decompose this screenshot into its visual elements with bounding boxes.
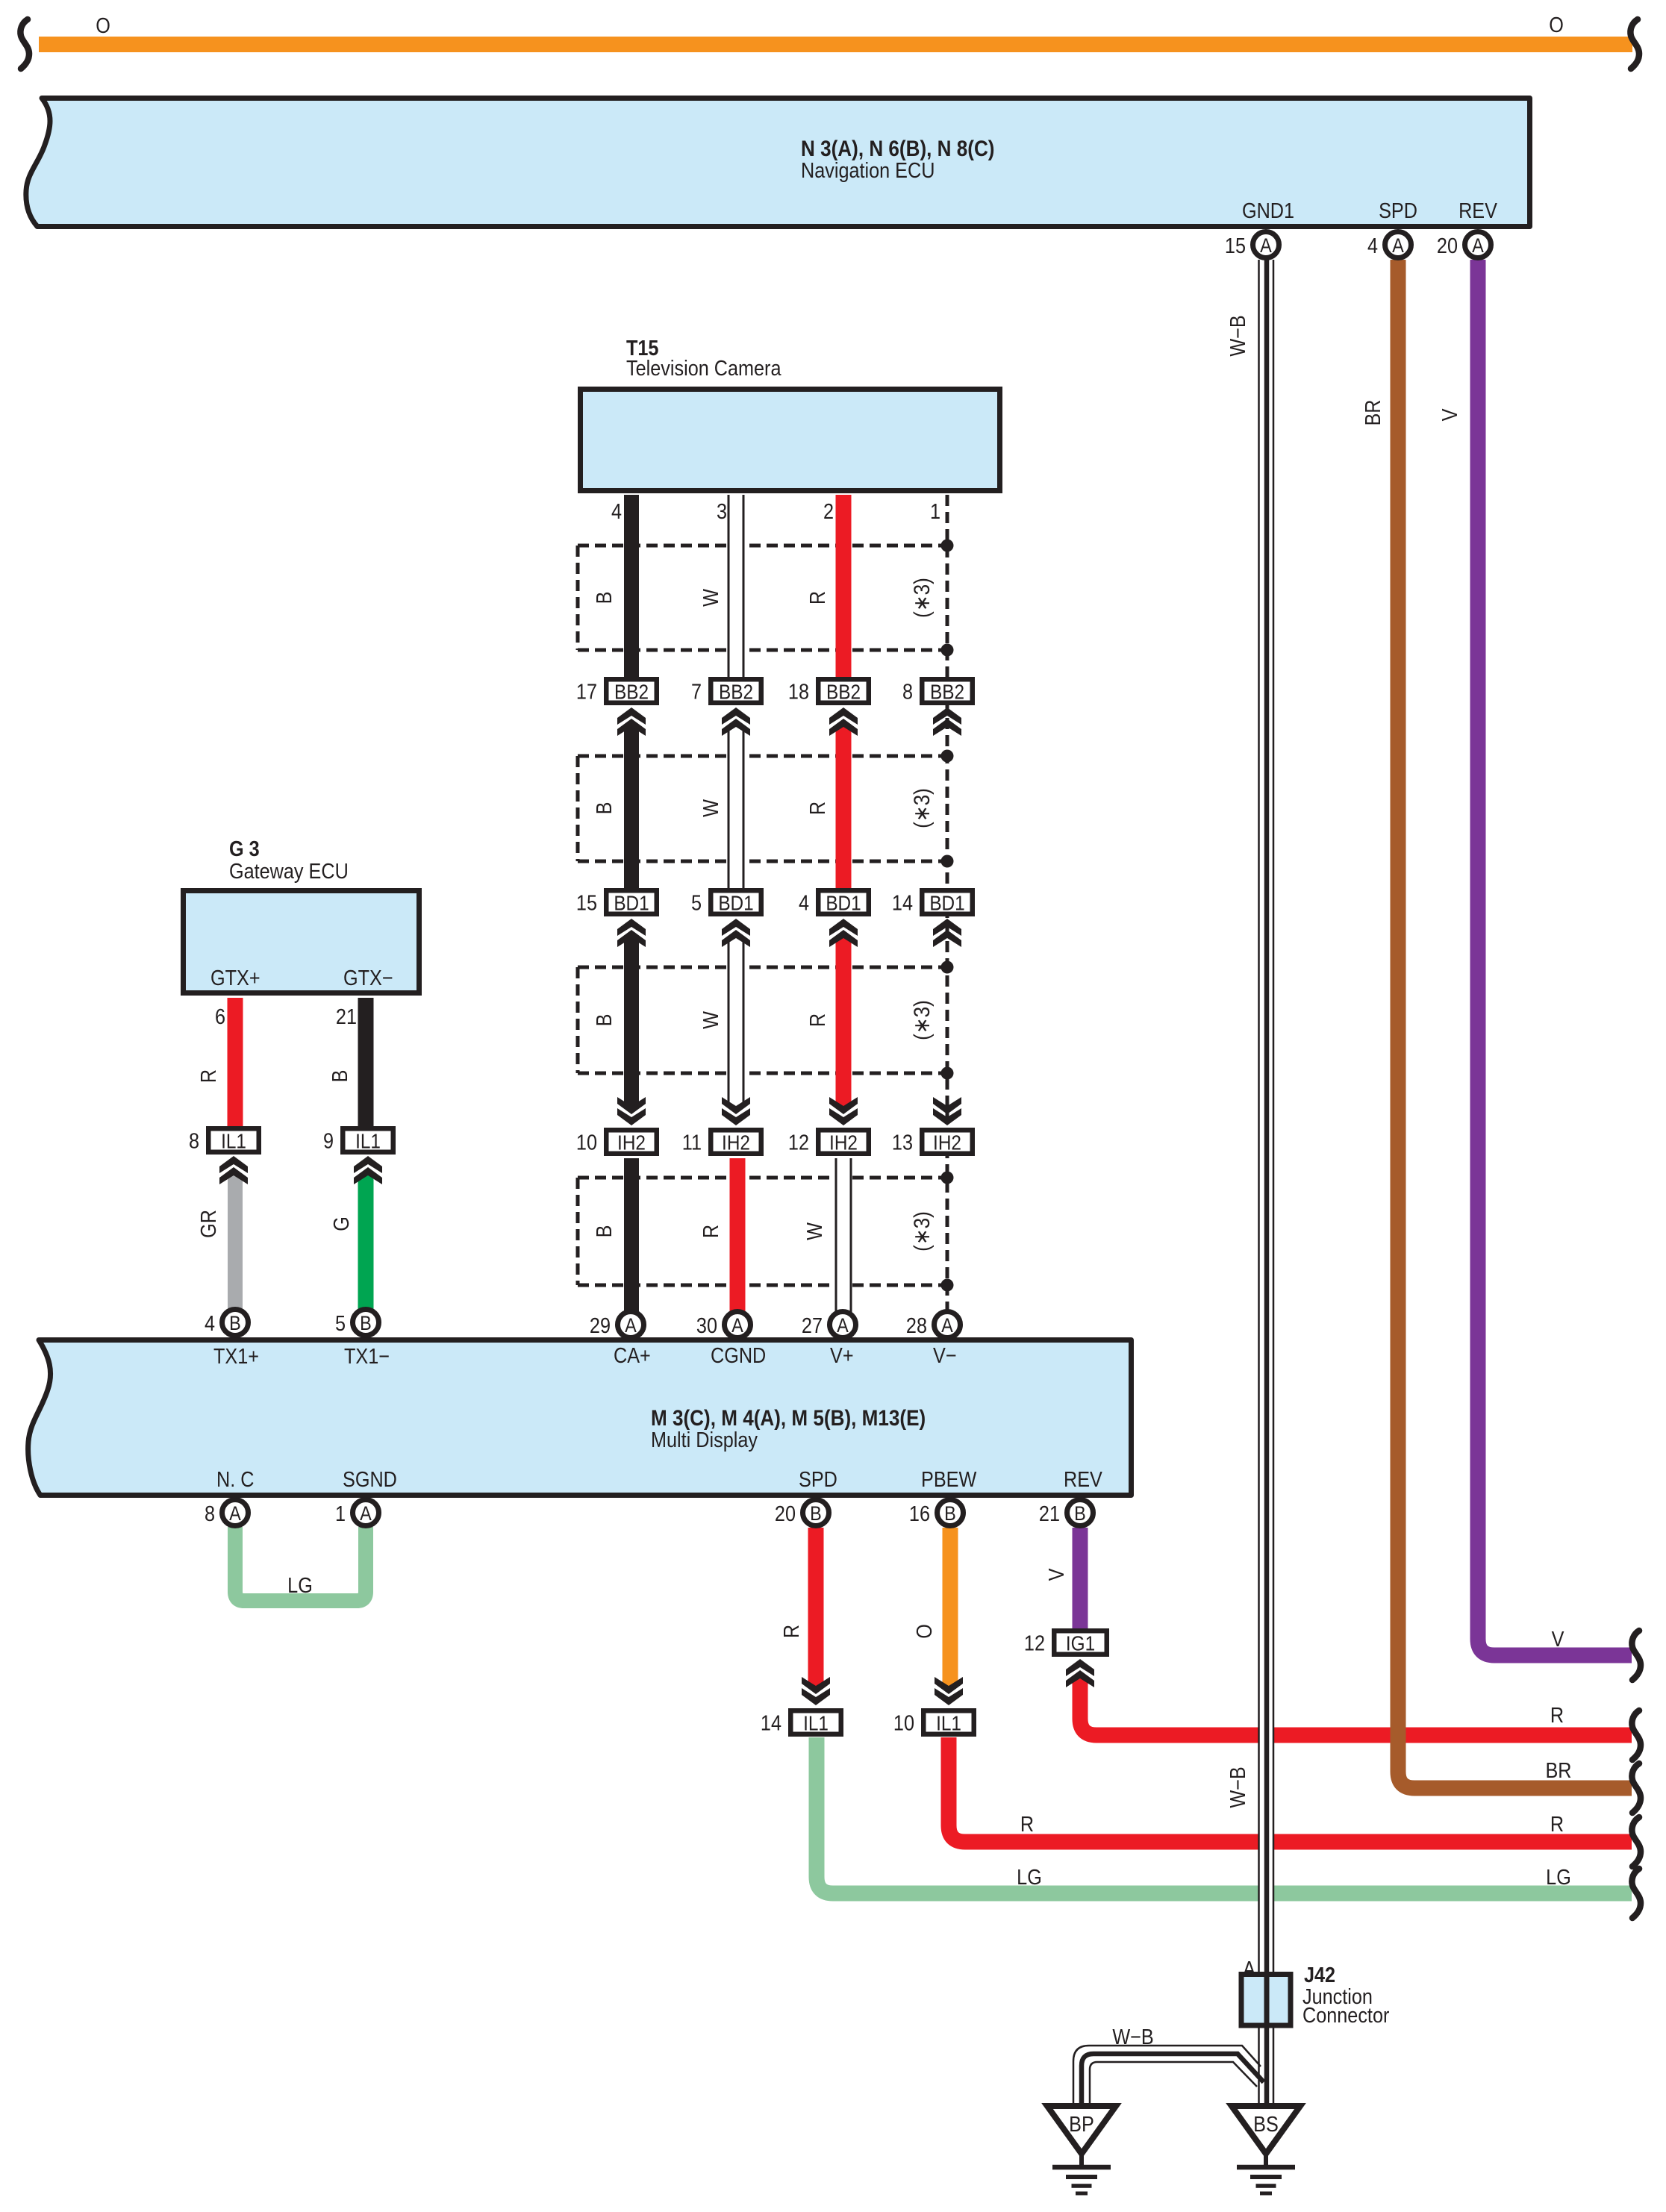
svg-text:N. C: N. C — [216, 1466, 254, 1491]
svg-text:V: V — [1043, 1569, 1068, 1581]
svg-text:V: V — [1437, 409, 1461, 422]
svg-text:17: 17 — [576, 679, 597, 704]
svg-text:R: R — [196, 1069, 220, 1083]
svg-text:A: A — [1472, 235, 1484, 257]
svg-text:W: W — [802, 1222, 826, 1240]
svg-text:8: 8 — [205, 1501, 215, 1525]
svg-text:B: B — [944, 1503, 956, 1525]
svg-text:BD1: BD1 — [718, 891, 753, 915]
svg-text:BB2: BB2 — [719, 680, 753, 704]
svg-text:14: 14 — [761, 1710, 781, 1735]
svg-text:(∗3): (∗3) — [909, 1211, 934, 1252]
svg-text:A: A — [941, 1315, 953, 1337]
svg-text:O: O — [96, 13, 110, 37]
svg-text:GTX+: GTX+ — [210, 965, 260, 990]
svg-text:A: A — [1243, 1956, 1256, 1981]
svg-text:W: W — [698, 1011, 723, 1029]
svg-text:BD1: BD1 — [929, 891, 964, 915]
svg-text:B: B — [360, 1313, 372, 1335]
svg-text:R: R — [1020, 1811, 1034, 1836]
svg-text:LG: LG — [1017, 1864, 1042, 1889]
svg-text:1: 1 — [930, 499, 940, 523]
svg-text:30: 30 — [696, 1313, 717, 1337]
svg-text:Television Camera: Television Camera — [626, 355, 781, 380]
svg-text:B: B — [1074, 1503, 1086, 1525]
svg-text:A: A — [1260, 235, 1272, 257]
svg-text:A: A — [360, 1503, 372, 1525]
svg-text:REV: REV — [1064, 1466, 1102, 1491]
svg-text:SPD: SPD — [1379, 198, 1417, 222]
svg-text:O: O — [911, 1624, 936, 1639]
svg-text:IH2: IH2 — [617, 1131, 646, 1155]
svg-text:R: R — [698, 1225, 723, 1238]
svg-text:15: 15 — [1225, 233, 1246, 257]
svg-text:V+: V+ — [830, 1343, 854, 1367]
svg-text:(∗3): (∗3) — [909, 578, 934, 618]
svg-text:V−: V− — [933, 1343, 957, 1367]
svg-text:R: R — [805, 1013, 829, 1027]
svg-text:Gateway ECU: Gateway ECU — [229, 858, 349, 883]
svg-text:IL1: IL1 — [936, 1711, 961, 1735]
svg-text:BB2: BB2 — [930, 680, 964, 704]
svg-text:R: R — [779, 1625, 803, 1638]
svg-text:BS: BS — [1253, 2111, 1279, 2136]
svg-text:BB2: BB2 — [826, 680, 861, 704]
svg-text:21: 21 — [336, 1004, 357, 1028]
svg-text:IH2: IH2 — [829, 1131, 858, 1155]
svg-text:IL1: IL1 — [803, 1711, 829, 1735]
svg-text:W: W — [698, 799, 723, 817]
svg-text:18: 18 — [788, 679, 809, 704]
svg-text:15: 15 — [576, 890, 597, 915]
svg-text:BB2: BB2 — [614, 680, 649, 704]
svg-text:A: A — [1392, 235, 1404, 257]
svg-text:12: 12 — [1024, 1631, 1045, 1655]
svg-text:G: G — [328, 1216, 353, 1231]
svg-text:Connector: Connector — [1302, 2002, 1389, 2027]
svg-text:8: 8 — [902, 679, 913, 704]
svg-text:O: O — [1549, 12, 1564, 37]
svg-text:W−B: W−B — [1112, 2024, 1153, 2049]
svg-text:29: 29 — [590, 1313, 611, 1337]
svg-text:20: 20 — [1437, 233, 1458, 257]
svg-text:R: R — [1550, 1811, 1564, 1836]
svg-text:6: 6 — [215, 1004, 225, 1028]
svg-text:IL1: IL1 — [355, 1129, 381, 1153]
svg-text:W: W — [698, 589, 723, 607]
svg-text:LG: LG — [287, 1572, 313, 1597]
svg-text:W−B: W−B — [1225, 1766, 1249, 1808]
svg-text:BD1: BD1 — [614, 891, 649, 915]
svg-text:3: 3 — [717, 499, 727, 523]
svg-text:10: 10 — [893, 1710, 914, 1735]
svg-text:28: 28 — [906, 1313, 927, 1337]
svg-text:BD1: BD1 — [826, 891, 861, 915]
svg-text:(∗3): (∗3) — [909, 788, 934, 828]
svg-text:4: 4 — [799, 890, 809, 915]
svg-text:12: 12 — [788, 1130, 809, 1155]
svg-text:A: A — [229, 1503, 241, 1525]
svg-text:B: B — [591, 1014, 616, 1027]
svg-text:7: 7 — [691, 679, 702, 704]
svg-text:BP: BP — [1069, 2111, 1094, 2136]
svg-text:V: V — [1552, 1626, 1564, 1651]
svg-text:R: R — [805, 802, 829, 815]
svg-text:21: 21 — [1039, 1501, 1060, 1525]
svg-text:B: B — [591, 802, 616, 815]
svg-text:LG: LG — [1546, 1864, 1571, 1889]
svg-text:CGND: CGND — [711, 1343, 766, 1367]
svg-text:A: A — [731, 1315, 743, 1337]
svg-text:4: 4 — [1367, 233, 1378, 257]
svg-text:A: A — [837, 1315, 849, 1337]
svg-text:14: 14 — [892, 890, 913, 915]
svg-text:R: R — [1550, 1702, 1564, 1727]
svg-text:B: B — [229, 1313, 241, 1335]
svg-text:GR: GR — [196, 1210, 220, 1238]
svg-text:CA+: CA+ — [614, 1343, 651, 1367]
svg-text:B: B — [591, 592, 616, 604]
svg-text:B: B — [810, 1503, 822, 1525]
svg-text:(∗3): (∗3) — [909, 1000, 934, 1040]
svg-text:4: 4 — [611, 499, 622, 523]
svg-text:G 3: G 3 — [229, 836, 260, 860]
svg-text:REV: REV — [1458, 198, 1497, 222]
svg-text:SPD: SPD — [799, 1466, 837, 1491]
svg-text:9: 9 — [323, 1128, 334, 1153]
svg-text:W−B: W−B — [1225, 315, 1249, 356]
svg-text:2: 2 — [823, 499, 834, 523]
svg-text:IH2: IH2 — [722, 1131, 750, 1155]
svg-text:16: 16 — [909, 1501, 930, 1525]
svg-text:5: 5 — [691, 890, 702, 915]
svg-text:BR: BR — [1360, 399, 1385, 425]
svg-text:B: B — [591, 1225, 616, 1238]
svg-text:4: 4 — [205, 1310, 215, 1335]
svg-text:10: 10 — [576, 1130, 597, 1155]
svg-text:5: 5 — [335, 1310, 346, 1335]
svg-text:R: R — [805, 591, 829, 604]
svg-text:TX1−: TX1− — [344, 1343, 390, 1368]
svg-text:27: 27 — [802, 1313, 823, 1337]
svg-text:PBEW: PBEW — [921, 1466, 977, 1491]
svg-text:20: 20 — [775, 1501, 796, 1525]
svg-text:IG1: IG1 — [1066, 1631, 1095, 1655]
svg-text:A: A — [625, 1315, 637, 1337]
svg-text:BR: BR — [1545, 1758, 1571, 1782]
svg-text:SGND: SGND — [343, 1466, 397, 1491]
svg-text:B: B — [327, 1070, 352, 1083]
svg-text:Multi Display: Multi Display — [651, 1427, 758, 1452]
svg-text:11: 11 — [682, 1130, 702, 1155]
svg-text:TX1+: TX1+ — [213, 1343, 259, 1368]
svg-text:IL1: IL1 — [221, 1129, 246, 1153]
svg-text:GND1: GND1 — [1242, 198, 1294, 222]
svg-text:1: 1 — [335, 1501, 346, 1525]
svg-text:8: 8 — [189, 1128, 199, 1153]
svg-text:Navigation ECU: Navigation ECU — [801, 157, 935, 182]
svg-text:IH2: IH2 — [933, 1131, 961, 1155]
svg-text:GTX−: GTX− — [343, 965, 393, 990]
svg-text:13: 13 — [892, 1130, 913, 1155]
